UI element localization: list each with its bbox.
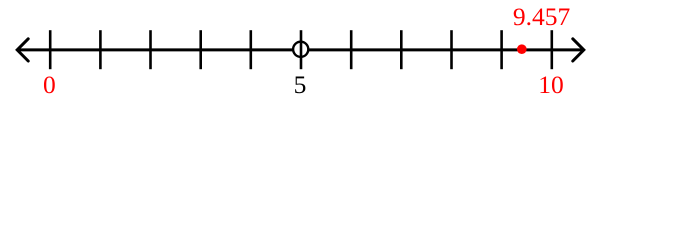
svg-text:9.457: 9.457	[513, 2, 571, 31]
svg-text:5: 5	[294, 70, 307, 99]
svg-text:10: 10	[538, 70, 564, 99]
svg-text:0: 0	[43, 70, 56, 99]
